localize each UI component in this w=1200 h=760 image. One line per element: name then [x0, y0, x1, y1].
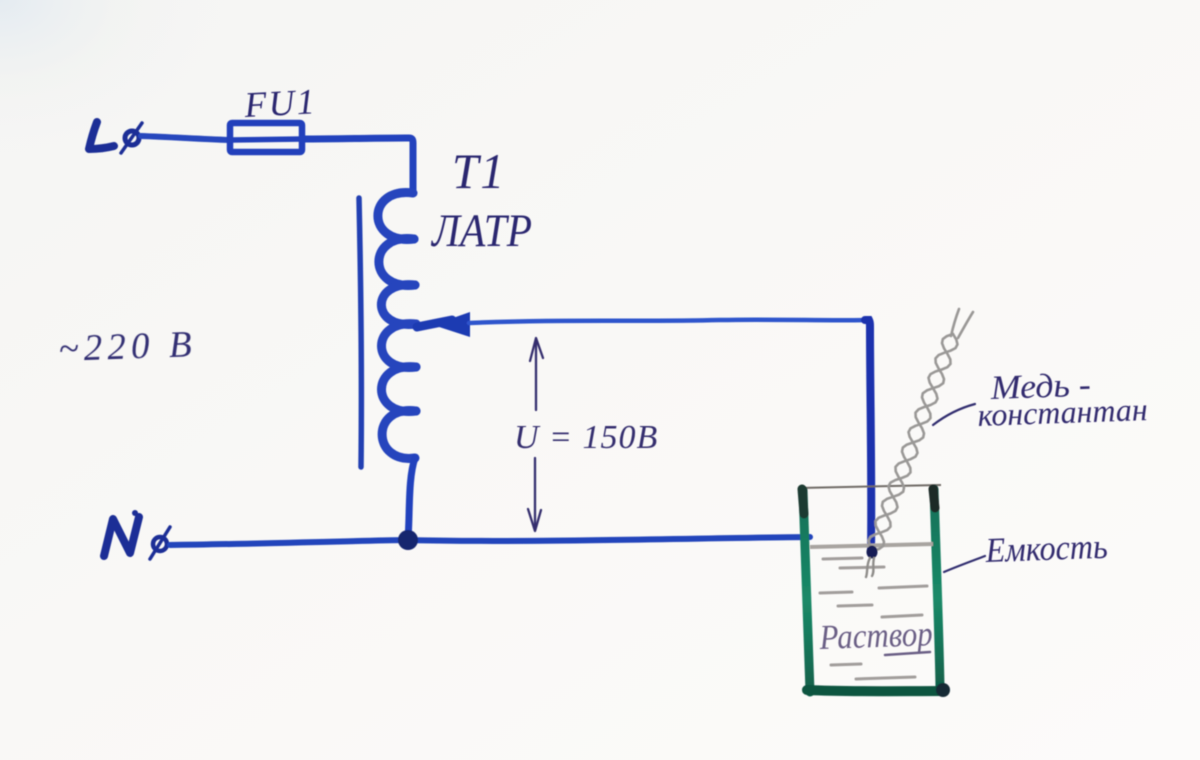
pointer line to twisted wire [933, 404, 975, 425]
terminal L letter [89, 122, 114, 149]
tap wire to right [469, 320, 868, 323]
terminal N dot [132, 510, 138, 516]
U arrow top shaft [528, 338, 543, 531]
terminal L circle [121, 123, 142, 153]
container left wall top cap [802, 489, 804, 514]
junction dot [398, 530, 418, 550]
terminal N letter [104, 517, 139, 556]
twisted wire strand A [873, 334, 953, 551]
svg-text:Емкость: Емкость [984, 527, 1108, 570]
N wire to container [170, 537, 810, 545]
pointer line to container [944, 556, 985, 572]
container right wall [934, 489, 940, 688]
wire coil bottom to junction [408, 458, 415, 539]
fuse FU1 box [230, 123, 302, 152]
svg-text:~220 В: ~220 В [58, 324, 196, 370]
tap arrowhead [433, 312, 470, 337]
transformer core bar [359, 198, 361, 467]
electrode dot [867, 546, 878, 559]
twisted wire strand B [869, 334, 958, 551]
electrode tip scribble [866, 558, 874, 577]
svg-text:константан: константан [977, 391, 1148, 433]
container top grey line [799, 485, 941, 488]
corner and vertical electrode wire [865, 320, 871, 551]
transformer T1 coil [378, 193, 416, 459]
svg-text:FU1: FU1 [242, 81, 317, 125]
svg-text:U = 150В: U = 150В [514, 419, 658, 456]
container bottom right dark blob [936, 683, 950, 697]
terminal N circle [150, 527, 170, 559]
svg-text:ЛАТР: ЛАТР [430, 205, 532, 257]
container right wall top cap [933, 489, 935, 508]
container bottom [807, 690, 943, 691]
fuse FU1 through line [231, 139, 302, 140]
water level line [810, 544, 933, 547]
water dashes [820, 558, 927, 679]
twisted wire top tips [951, 309, 973, 338]
wire fuse to corner [302, 138, 413, 193]
wire L to fuse [141, 136, 229, 140]
Раствор underline [885, 652, 930, 655]
tap arrow stub [417, 320, 452, 327]
svg-text:T1: T1 [452, 143, 506, 199]
container left wall [803, 490, 810, 692]
svg-text:Раствор: Раствор [818, 614, 933, 657]
